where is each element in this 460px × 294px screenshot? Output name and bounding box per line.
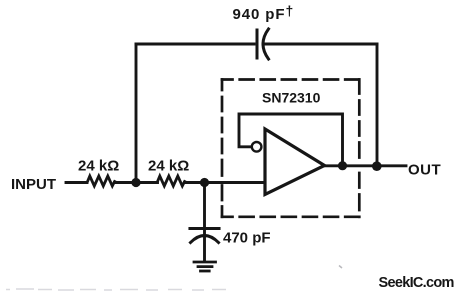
- resistor R2 24 kOhm (zigzag): [158, 176, 185, 186]
- capacitor C1 940 pF curved plate: [263, 29, 269, 59]
- svg-text:940 pF: 940 pF: [233, 6, 286, 23]
- wire: top rail right segment from C1 to right riser: [263, 43, 377, 46]
- op-amp U1 triangle: [265, 129, 325, 195]
- op-amp U1 inverting input bubble: [252, 142, 262, 152]
- svg-text:SeekIC.com: SeekIC.com: [379, 275, 454, 291]
- node: output junction 2 (top rail tap): [372, 161, 382, 171]
- svg-text:24 kΩ: 24 kΩ: [148, 158, 189, 175]
- svg-text:OUT: OUT: [408, 162, 441, 179]
- wire: from R2 through node B to op-amp noninverting input: [185, 181, 264, 184]
- op-amp U1 dashed package box left edge: [221, 80, 224, 217]
- wire: output from op-amp apex to OUT: [325, 164, 407, 167]
- svg-text:24 kΩ: 24 kΩ: [78, 158, 119, 175]
- svg-text:INPUT: INPUT: [11, 176, 56, 193]
- node: output junction 1 (feedback tap): [338, 161, 347, 170]
- ground symbol: [194, 262, 216, 271]
- node B junction dot: [200, 178, 209, 187]
- capacitor C1 940 pF straight plate: [256, 30, 259, 58]
- svg-text:470 pF: 470 pF: [223, 230, 271, 247]
- capacitor C2 470 pF curved plate: [191, 236, 219, 243]
- resistor R1 24 kOhm (zigzag): [88, 176, 115, 186]
- op-amp U1 dashed package box top edge: [222, 78, 359, 81]
- capacitor C2 470 pF straight plate: [190, 227, 219, 230]
- wire: from C2 down to ground: [203, 231, 206, 261]
- wire: top rail left segment to capacitor C1: [136, 43, 254, 46]
- wire: feedback riser from node A up to top rail: [135, 44, 138, 183]
- op-amp U1 dashed package box bottom edge: [222, 215, 359, 218]
- wire: between R1 and R2 through node A: [115, 181, 158, 184]
- op-amp U1 dashed package box right edge: [358, 80, 361, 217]
- svg-text:†: †: [286, 3, 294, 19]
- wire: branch from node B down to capacitor C2: [203, 183, 206, 229]
- node A junction dot: [131, 178, 140, 187]
- wire: internal feedback loop (output to inverting input): [239, 114, 343, 166]
- decorative faint scan artifacts at bottom edge: [6, 289, 226, 290]
- wire: right riser from top rail down to output node: [376, 44, 379, 166]
- wire: input lead from INPUT label to R1: [66, 181, 87, 184]
- svg-text:SN72310: SN72310: [262, 90, 321, 106]
